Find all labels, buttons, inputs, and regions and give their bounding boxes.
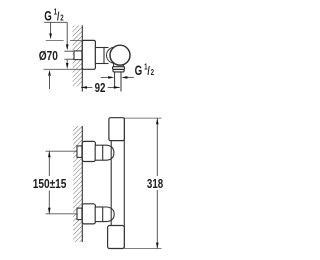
318 extension bottom bbox=[125, 248, 162, 250]
leader arrow to inlet pipe bbox=[66, 22, 68, 45]
dim text 150±15 bbox=[33, 177, 67, 191]
svg-text:/: / bbox=[57, 11, 59, 24]
svg-text:2: 2 bbox=[60, 12, 63, 22]
wall hatching (top view) bbox=[73, 25, 83, 86]
wall face line (top view) bbox=[81, 25, 83, 91]
extension line bottom (escutcheon bottom) bbox=[44, 68, 83, 70]
svg-text:2: 2 bbox=[151, 67, 154, 77]
knob inner ring (crescent) bbox=[107, 47, 123, 63]
body section lines bbox=[104, 47, 109, 49]
dim 150±15 line + arrows bbox=[48, 151, 50, 176]
nut upper bbox=[95, 145, 103, 160]
extension line top (escutcheon top) bbox=[46, 40, 64, 42]
dim text 92 bbox=[95, 82, 106, 96]
bottom cap bbox=[108, 226, 125, 249]
dim 318 line + arrows bbox=[156, 118, 158, 176]
escutcheon (top view) bbox=[82, 40, 95, 69]
nut lower bbox=[95, 207, 103, 222]
escutcheon upper bbox=[82, 141, 95, 161]
svg-text:92: 92 bbox=[95, 82, 106, 96]
dim arrow below pipe (down to bottom ext line) bbox=[66, 60, 68, 64]
wall hatching (bottom view) bbox=[73, 126, 82, 242]
svg-text:318: 318 bbox=[147, 178, 164, 192]
escutcheon lower bbox=[82, 204, 95, 224]
cone lower bbox=[103, 207, 115, 222]
extension line lower union bbox=[46, 213, 77, 215]
dim arrow up to bottom ext line bbox=[49, 76, 51, 89]
wall face line (bottom view) bbox=[81, 126, 83, 242]
label Ø70 bbox=[39, 49, 58, 63]
dim 92 line + arrows bbox=[81, 86, 92, 88]
cone upper bbox=[103, 145, 114, 160]
arrow to pipe left side bbox=[101, 76, 109, 78]
inlet socket in wall bbox=[74, 51, 82, 60]
column body bbox=[110, 141, 112, 226]
extension line upper union bbox=[46, 150, 77, 152]
svg-text:G: G bbox=[44, 9, 52, 24]
svg-text:Ø70: Ø70 bbox=[39, 49, 58, 63]
leader arrow to escutcheon plane bbox=[50, 22, 52, 34]
knob circle (top view) bbox=[110, 45, 130, 65]
svg-text:150±15: 150±15 bbox=[33, 177, 67, 191]
ribbed outlet connector bbox=[113, 63, 115, 67]
union cylinder bbox=[95, 48, 104, 64]
outlet pipe bbox=[114, 72, 116, 88]
label G1/2 right bbox=[135, 61, 154, 78]
socket upper bbox=[77, 146, 82, 158]
dim text 318 bbox=[147, 178, 164, 192]
top cap bbox=[109, 118, 124, 141]
318 extension top bbox=[125, 117, 162, 119]
arrow from G1/2 to pipe (right) bbox=[127, 76, 134, 78]
inlet pipe stub bbox=[64, 50, 74, 52]
label G1/2 top-left bbox=[44, 7, 63, 24]
svg-text:/: / bbox=[147, 66, 149, 79]
svg-text:G: G bbox=[135, 64, 143, 79]
socket lower bbox=[77, 208, 82, 220]
leader line under G1/2 bbox=[44, 21, 67, 23]
